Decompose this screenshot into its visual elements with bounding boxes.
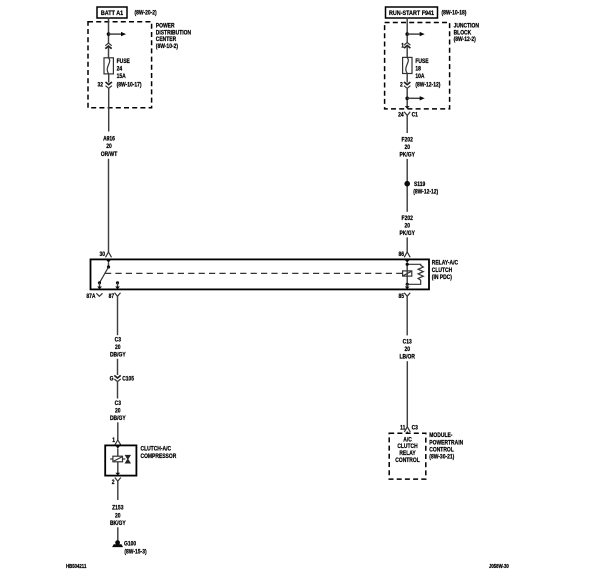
compressor terminal 2 inside	[115, 462, 120, 476]
svg-text:85: 85	[398, 294, 404, 301]
label POWER DISTRIBUTION CENTER (8W-10-2)	[156, 23, 191, 50]
svg-text:RELAY: RELAY	[399, 450, 416, 457]
svg-text:10A: 10A	[415, 74, 424, 81]
relay terminal 30 inside	[106, 260, 111, 269]
arrow tap to other circuits	[407, 32, 425, 36]
label S119 (8W-12-12)	[413, 182, 438, 196]
svg-text:24: 24	[398, 112, 404, 119]
svg-text:CLUTCH: CLUTCH	[397, 444, 417, 451]
power feed BATT A1	[97, 7, 127, 18]
fuse 18	[403, 57, 412, 73]
relay terminal 85 inside	[405, 283, 410, 290]
svg-text:20: 20	[404, 223, 410, 230]
junction block box	[385, 23, 450, 109]
svg-text:DISTRIBUTION: DISTRIBUTION	[156, 30, 191, 37]
pin 87A	[86, 293, 102, 300]
svg-text:OR/WT: OR/WT	[101, 151, 118, 158]
svg-text:(8W-20-2): (8W-20-2)	[135, 10, 157, 17]
module powertrain control box	[389, 433, 426, 479]
svg-text:(8W-12-2): (8W-12-2)	[454, 37, 476, 44]
relay terminal 86 inside	[405, 260, 410, 266]
sheet code J058W-30	[489, 564, 509, 571]
svg-text:JUNCTION: JUNCTION	[454, 23, 479, 30]
relay coil	[403, 264, 412, 284]
svg-text:G: G	[110, 376, 114, 383]
connector C105	[110, 375, 134, 382]
wire A916 to relay pin 30	[108, 159, 110, 252]
svg-text:32: 32	[97, 82, 103, 89]
compressor CLUTCH-A/C COMPRESSOR box	[105, 445, 136, 475]
svg-text:(8W-12-12): (8W-12-12)	[413, 189, 438, 196]
svg-text:S119: S119	[414, 182, 425, 189]
pin 30	[99, 251, 111, 258]
svg-text:(8W-30-21): (8W-30-21)	[429, 454, 454, 461]
relay contact armature	[98, 267, 109, 284]
label wire C3 20 DB/GY	[110, 401, 126, 422]
svg-text:MODULE-: MODULE-	[429, 433, 452, 440]
svg-text:1: 1	[112, 438, 115, 445]
svg-text:C3: C3	[412, 425, 418, 432]
label wire C13 20 LB/OR	[399, 339, 414, 360]
svg-text:1: 1	[401, 43, 404, 50]
svg-text:PK/GY: PK/GY	[399, 231, 415, 238]
pin 86	[398, 251, 410, 258]
label FUSE 18 10A (8W-12-12)	[415, 58, 440, 88]
svg-text:Z153: Z153	[112, 505, 123, 512]
label FUSE 24 15A (8W-10-17)	[117, 59, 142, 89]
label CLUTCH-A/C COMPRESSOR	[141, 446, 177, 460]
svg-text:(8W-10-2): (8W-10-2)	[156, 44, 178, 51]
svg-text:DB/GY: DB/GY	[110, 352, 126, 359]
svg-text:C1: C1	[412, 112, 418, 119]
svg-text:CLUTCH: CLUTCH	[432, 267, 452, 274]
svg-text:20: 20	[106, 144, 112, 151]
node junction dot	[405, 32, 409, 36]
svg-text:BATT A1: BATT A1	[101, 9, 124, 17]
wire RUN-START down into JB	[406, 18, 408, 43]
wire stub into PCM	[406, 432, 408, 434]
svg-text:BLOCK: BLOCK	[454, 30, 472, 37]
power distribution center box	[88, 22, 152, 108]
svg-text:(8W-10-17): (8W-10-17)	[117, 82, 142, 89]
relay RELAY-A/C CLUTCH box	[91, 259, 430, 289]
svg-text:(8W-15-3): (8W-15-3)	[124, 549, 146, 556]
svg-text:(8W-12-12): (8W-12-12)	[415, 82, 440, 89]
svg-text:20: 20	[404, 346, 410, 353]
svg-text:24: 24	[117, 66, 123, 73]
svg-text:2: 2	[400, 82, 403, 89]
wire F202 to relay pin 86	[406, 237, 408, 252]
node junction dot	[107, 32, 111, 36]
wire fuse to JB exit	[406, 74, 408, 107]
label A/C CLUTCH RELAY CONTROL	[395, 437, 420, 464]
label wire C3 20 DB/GY	[110, 337, 126, 359]
wire to ground	[117, 527, 119, 541]
svg-text:LB/OR: LB/OR	[399, 354, 414, 361]
clutch coil	[110, 456, 122, 462]
svg-text:15A: 15A	[117, 74, 126, 81]
svg-text:HB504211: HB504211	[66, 564, 87, 571]
wire compressor to Z153 label	[117, 481, 119, 500]
svg-text:20: 20	[115, 344, 121, 351]
svg-text:PK/GY: PK/GY	[399, 152, 415, 159]
svg-text:CONTROL: CONTROL	[395, 458, 420, 465]
svg-text:BK/GY: BK/GY	[110, 520, 126, 527]
relay terminal 87 inside	[115, 281, 120, 289]
svg-text:CLUTCH-A/C: CLUTCH-A/C	[141, 446, 172, 453]
svg-text:86: 86	[398, 251, 404, 258]
label MODULE-POWERTRAIN CONTROL (8W-30-21)	[429, 433, 463, 461]
svg-text:2: 2	[112, 479, 115, 486]
connector chevron pair	[105, 43, 111, 49]
svg-text:COMPRESSOR: COMPRESSOR	[141, 454, 177, 461]
arrow tap to other circuits	[109, 32, 127, 36]
connector C1 pin 24	[398, 112, 418, 119]
clutch plates	[125, 455, 130, 463]
svg-text:POWER: POWER	[156, 23, 175, 30]
svg-text:RUN-START F941: RUN-START F941	[389, 9, 435, 17]
label wire F202 20 PK/GY	[399, 215, 415, 237]
wire F202 to splice S119	[406, 159, 408, 212]
fuse 24	[104, 58, 113, 74]
svg-text:20: 20	[115, 513, 121, 520]
JB exit terminal inside	[405, 106, 410, 109]
svg-text:CONTROL: CONTROL	[429, 447, 454, 454]
label wire A916 20 OR/WT	[101, 136, 118, 158]
wire to compressor pin 1	[117, 422, 119, 440]
svg-text:DB/GY: DB/GY	[110, 415, 126, 422]
resistor relay shunt	[407, 264, 423, 284]
sheet code HB504211	[66, 564, 87, 571]
label wire F202 20 PK/GY	[399, 137, 415, 159]
wire fuse to A916 label	[108, 74, 110, 132]
pin 2 of fuse 18	[400, 82, 403, 89]
svg-text:30: 30	[99, 251, 105, 258]
svg-text:A916: A916	[103, 136, 115, 143]
svg-text:20: 20	[404, 145, 410, 152]
label (8W-20-2)	[135, 10, 157, 17]
power feed RUN-START F941	[386, 7, 438, 18]
pin 85	[398, 293, 410, 301]
svg-text:G100: G100	[124, 541, 136, 548]
svg-text:J058W-30: J058W-30	[489, 564, 509, 571]
svg-text:18: 18	[415, 66, 421, 73]
connector chevron pair	[404, 43, 410, 49]
wire C13 to PCM pin 11	[406, 361, 408, 427]
svg-text:RELAY-A/C: RELAY-A/C	[432, 260, 458, 267]
arrow tap to other circuits	[407, 96, 425, 100]
node junction dot	[405, 97, 409, 101]
svg-text:(8W-10-18): (8W-10-18)	[442, 10, 467, 17]
svg-text:87: 87	[109, 294, 115, 301]
label RELAY-A/C CLUTCH (IN PDC)	[432, 260, 458, 281]
label (8W-10-18)	[442, 10, 467, 17]
wire BATT A1 down into PDC	[108, 18, 110, 44]
svg-text:F202: F202	[402, 137, 413, 144]
connector chevron pair below fuse	[404, 82, 410, 88]
label JUNCTION BLOCK (8W-12-2)	[454, 23, 479, 43]
wire C1 to F202 label	[406, 116, 408, 134]
label wire Z153 20 BK/GY	[110, 505, 126, 527]
clutch mechanical link	[123, 458, 126, 460]
svg-text:C3: C3	[115, 401, 121, 408]
pin 87	[109, 293, 121, 301]
relay terminal 87A inside	[97, 283, 102, 289]
pin 32	[97, 82, 103, 89]
svg-text:C3: C3	[115, 337, 121, 344]
wire C105 down	[117, 381, 119, 399]
compressor terminal 1 inside	[115, 446, 120, 457]
pin 11 connector C3	[400, 425, 418, 432]
svg-text:C13: C13	[403, 339, 412, 346]
svg-text:F202: F202	[402, 215, 413, 222]
svg-text:FUSE: FUSE	[415, 58, 428, 65]
wire relay 85 down	[406, 296, 408, 335]
pin 2	[112, 478, 121, 487]
splice S119	[404, 181, 410, 187]
svg-text:POWERTRAIN: POWERTRAIN	[429, 440, 463, 447]
connector chevron pair below fuse	[106, 82, 112, 88]
svg-text:20: 20	[115, 408, 121, 415]
svg-text:(IN PDC): (IN PDC)	[432, 275, 452, 282]
label G100 (8W-15-3)	[124, 541, 147, 556]
wire chevron to fuse	[406, 46, 408, 57]
wire to connector C105	[117, 359, 119, 375]
svg-text:FUSE: FUSE	[117, 59, 130, 66]
relay mechanical dashed link	[105, 272, 403, 274]
pin 1 of fuse 18	[401, 43, 404, 50]
wire chevron to fuse	[108, 47, 110, 58]
ground G100	[112, 540, 123, 547]
wire relay 87 down	[117, 296, 119, 335]
pin 1	[112, 438, 121, 445]
svg-text:87A: 87A	[86, 294, 95, 301]
svg-text:C105: C105	[122, 376, 134, 383]
svg-text:CENTER: CENTER	[156, 37, 176, 44]
